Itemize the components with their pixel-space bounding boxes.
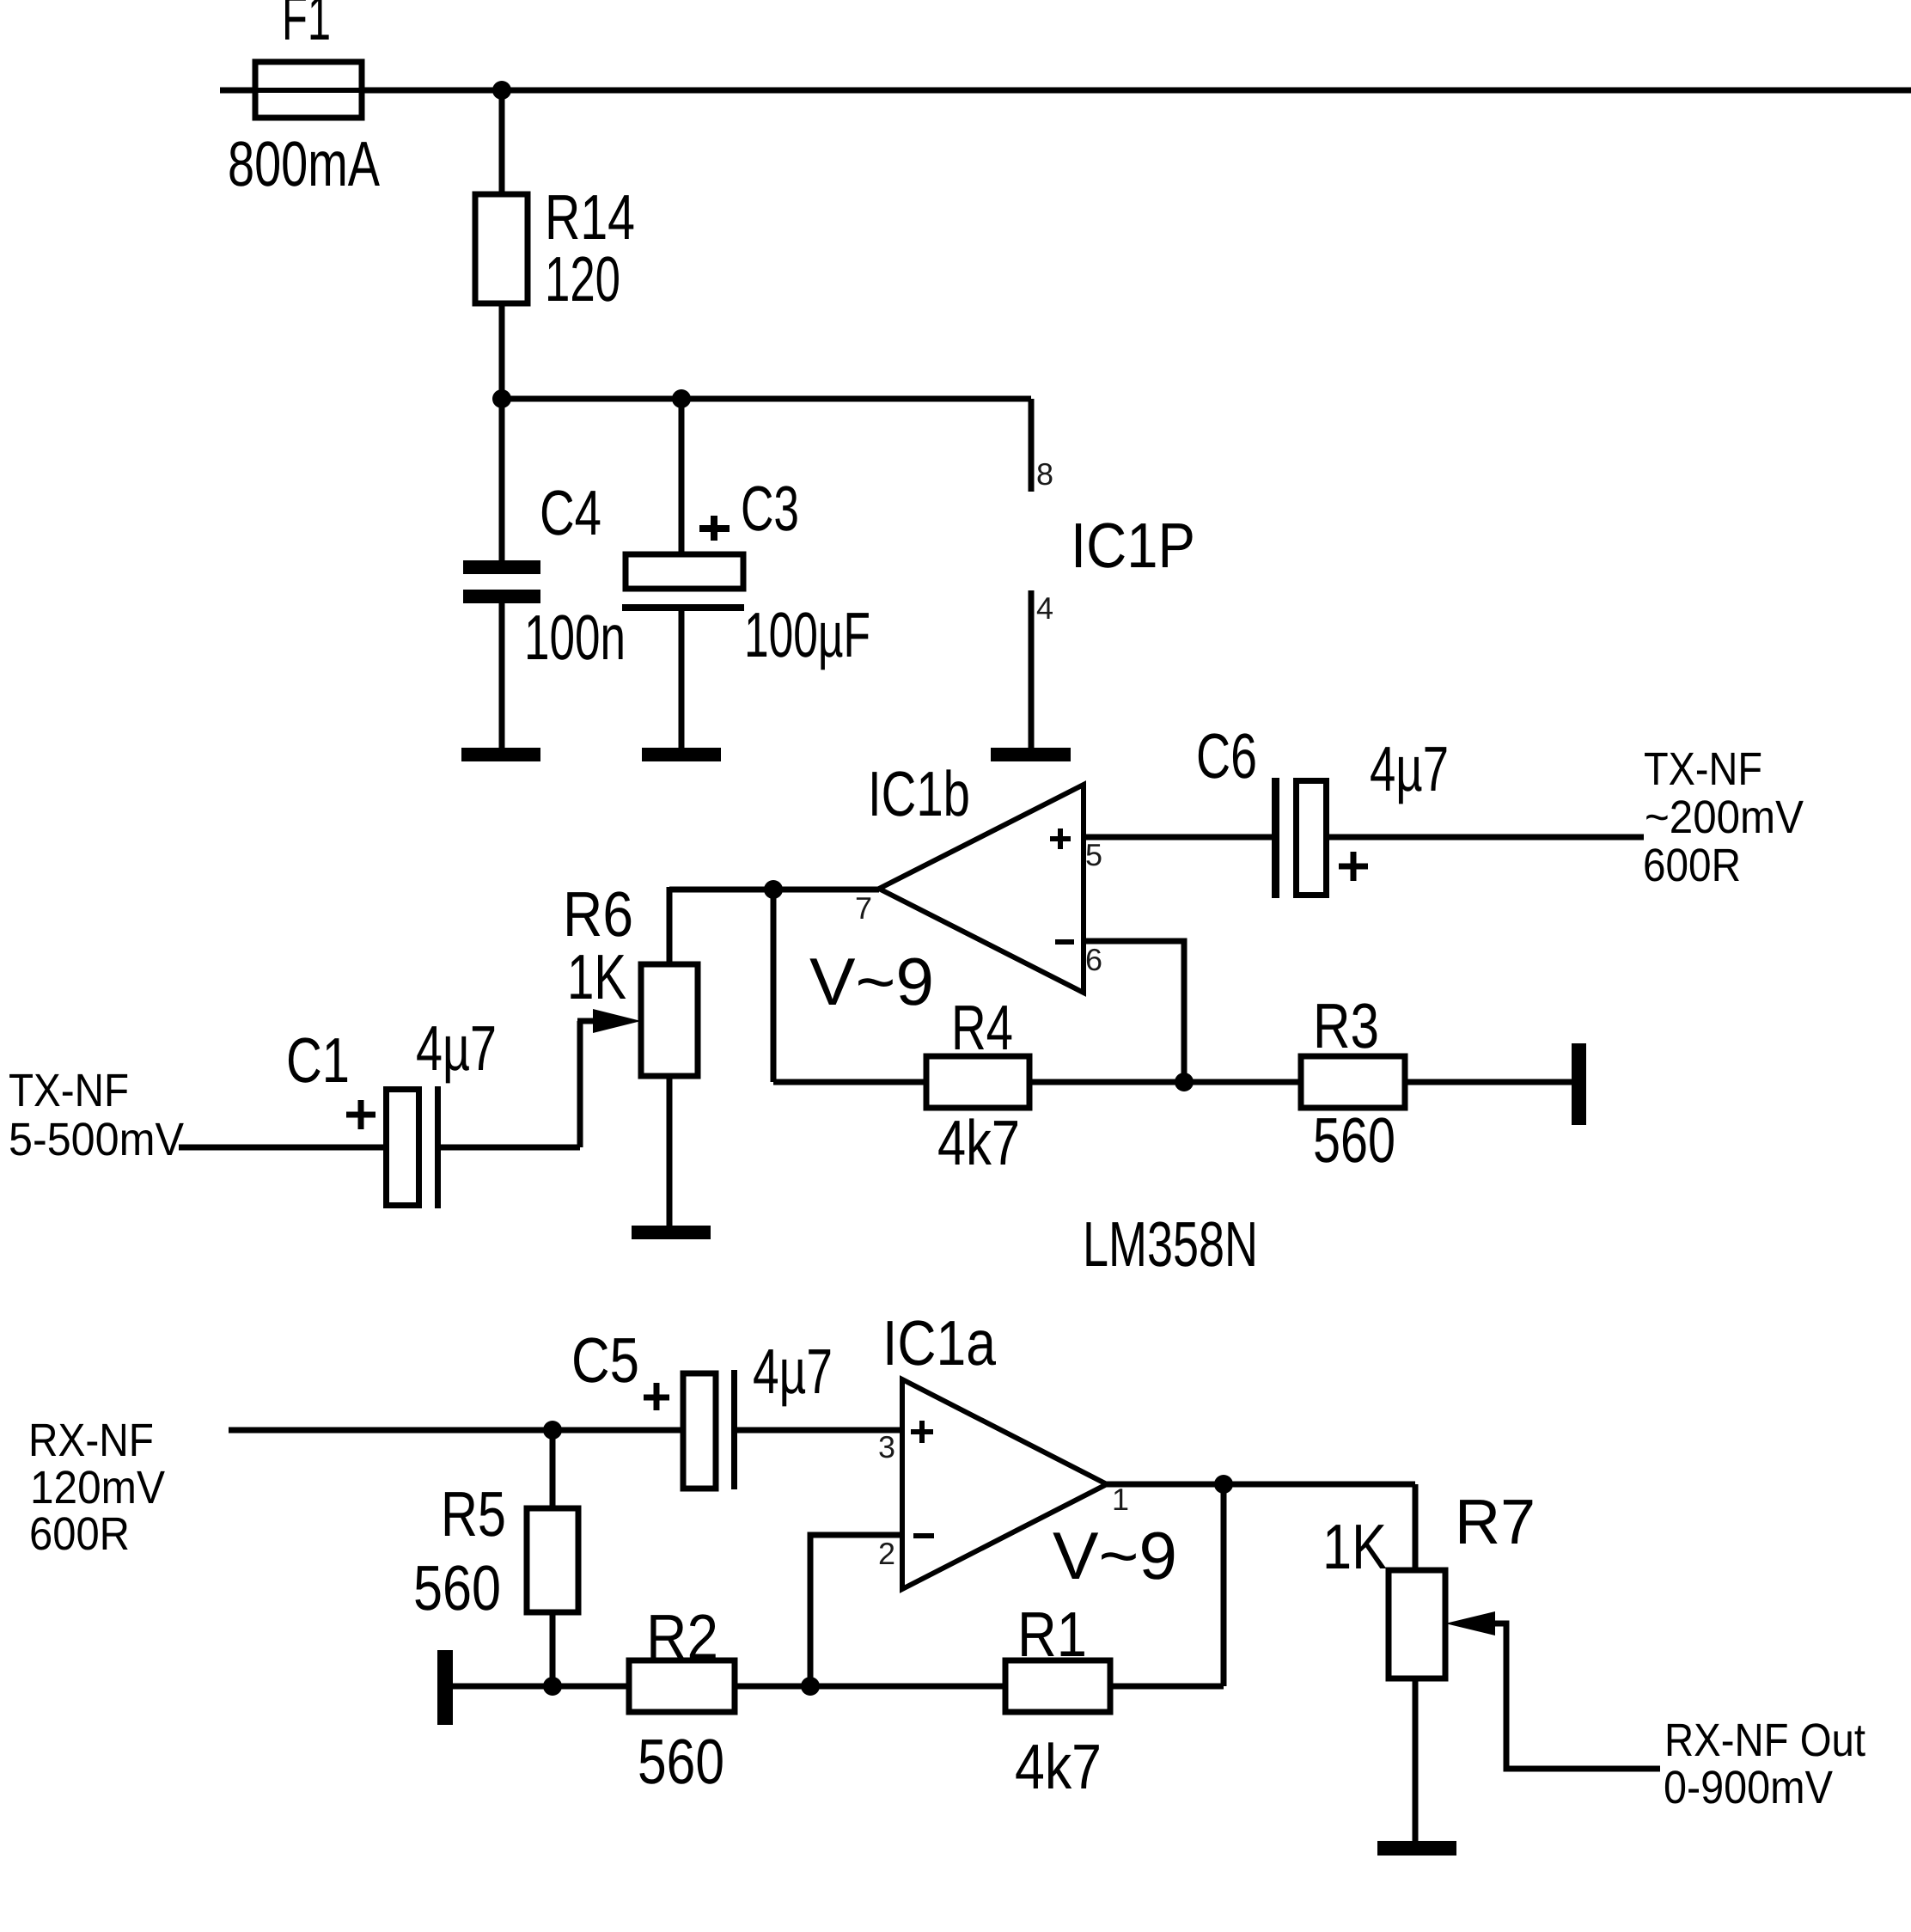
svg-text:IC1b: IC1b bbox=[868, 758, 970, 829]
svg-text:800mA: 800mA bbox=[228, 128, 380, 199]
svg-text:600R: 600R bbox=[1643, 840, 1741, 891]
svg-text:R1: R1 bbox=[1017, 1599, 1087, 1670]
node junction R2/R1/pin2 bbox=[801, 1677, 820, 1696]
svg-text:R7: R7 bbox=[1455, 1486, 1536, 1557]
wire R5 bottom lead bbox=[550, 1612, 556, 1686]
svg-text:LM358N: LM358N bbox=[1083, 1208, 1258, 1280]
resistor R2 bbox=[629, 1660, 735, 1712]
ground left bbox=[437, 1650, 453, 1725]
wire output drop to R1 bbox=[1221, 1484, 1227, 1686]
svg-text:560: 560 bbox=[413, 1552, 501, 1623]
wire IC1b pin 6 bbox=[1084, 941, 1184, 1082]
svg-text:5: 5 bbox=[1085, 837, 1102, 872]
svg-text:5-500mV: 5-500mV bbox=[9, 1114, 184, 1165]
svg-text:6: 6 bbox=[1085, 942, 1102, 977]
svg-text:C1: C1 bbox=[286, 1024, 350, 1096]
ground IC1P bbox=[991, 748, 1071, 761]
svg-text:V~9: V~9 bbox=[1053, 1518, 1177, 1593]
node junction top rail / R14 bbox=[492, 81, 511, 100]
svg-text:1K: 1K bbox=[567, 941, 626, 1012]
wire TX-NF input bbox=[179, 1145, 386, 1151]
wire feedback row bbox=[773, 1079, 1572, 1085]
svg-text:4µ7: 4µ7 bbox=[1370, 733, 1449, 804]
wire feedback drop bbox=[771, 890, 777, 1082]
resistor R4 bbox=[926, 1056, 1029, 1108]
wire R6 wiper bbox=[577, 1018, 595, 1024]
svg-text:R3: R3 bbox=[1313, 990, 1379, 1061]
op-amp IC1b bbox=[879, 785, 1084, 993]
wire IC1b pin 7 out bbox=[669, 887, 879, 893]
ground R7 bbox=[1377, 1841, 1456, 1856]
node junction C3 bbox=[672, 389, 691, 408]
svg-text:560: 560 bbox=[638, 1726, 724, 1797]
wire IC1P pin 8 stub bbox=[1029, 399, 1035, 492]
wire C4 bottom lead bbox=[499, 603, 505, 748]
svg-text:C3: C3 bbox=[741, 473, 799, 544]
svg-text:C6: C6 bbox=[1196, 720, 1257, 792]
svg-text:R2: R2 bbox=[646, 1601, 718, 1672]
wire R5 top lead bbox=[550, 1430, 556, 1508]
svg-text:4µ7: 4µ7 bbox=[416, 1012, 497, 1084]
wire IC1a output bbox=[1107, 1482, 1415, 1488]
capacitor C3 bbox=[626, 554, 743, 589]
svg-text:4k7: 4k7 bbox=[1015, 1731, 1102, 1802]
svg-text:IC1a: IC1a bbox=[882, 1307, 997, 1379]
svg-text:1: 1 bbox=[1112, 1482, 1129, 1517]
ground C3 bbox=[642, 748, 721, 761]
wire top rail bbox=[220, 88, 1911, 94]
svg-text:120: 120 bbox=[545, 243, 620, 315]
ground R6 bbox=[632, 1226, 711, 1239]
resistor R3 bbox=[1301, 1056, 1405, 1108]
node junction R14/C4 bbox=[492, 389, 511, 408]
svg-text:C5: C5 bbox=[571, 1324, 639, 1396]
svg-text:0-900mV: 0-900mV bbox=[1664, 1762, 1833, 1813]
wire R14 top bbox=[499, 90, 505, 194]
fuse F1 bbox=[255, 62, 362, 118]
svg-text:560: 560 bbox=[1313, 1104, 1395, 1176]
svg-text:100n: 100n bbox=[524, 602, 626, 673]
svg-text:120mV: 120mV bbox=[30, 1462, 165, 1513]
wire RX-NF input bbox=[229, 1428, 683, 1434]
ground R3 bbox=[1572, 1043, 1586, 1125]
node junction pin7/R6 bbox=[764, 880, 783, 899]
svg-text:4k7: 4k7 bbox=[937, 1107, 1020, 1178]
svg-text:R14: R14 bbox=[545, 181, 635, 253]
svg-text:1K: 1K bbox=[1322, 1511, 1387, 1582]
wire C5 to pin 3 bbox=[737, 1428, 902, 1434]
resistor R5 bbox=[527, 1508, 578, 1612]
wire R7 top lead bbox=[1413, 1484, 1419, 1570]
node junction R4/R3/pin6 bbox=[1175, 1073, 1194, 1091]
wire supply row bbox=[502, 396, 1031, 402]
wire IC1P pin 4 stub bbox=[1029, 590, 1035, 748]
svg-text:TX-NF: TX-NF bbox=[9, 1065, 129, 1116]
svg-text:R4: R4 bbox=[951, 992, 1013, 1063]
wire ground row bbox=[453, 1684, 1224, 1690]
svg-text:IC1P: IC1P bbox=[1071, 510, 1195, 581]
svg-text:TX-NF: TX-NF bbox=[1644, 743, 1762, 795]
svg-text:7: 7 bbox=[855, 890, 872, 926]
svg-text:C4: C4 bbox=[540, 477, 601, 548]
svg-text:RX-NF Out: RX-NF Out bbox=[1664, 1715, 1865, 1766]
wire C1 to R6 bbox=[441, 1145, 580, 1151]
svg-text:4µ7: 4µ7 bbox=[753, 1336, 833, 1407]
potentiometer R6 bbox=[641, 964, 698, 1076]
svg-text:R6: R6 bbox=[563, 878, 633, 950]
ground C4 bbox=[461, 748, 540, 761]
svg-text:F1: F1 bbox=[282, 0, 331, 53]
svg-text:8: 8 bbox=[1036, 456, 1053, 492]
svg-text:R5: R5 bbox=[441, 1478, 506, 1550]
wire IC1a pin 2 bbox=[810, 1535, 902, 1686]
node junction R5/gnd bbox=[543, 1677, 562, 1696]
capacitor C1 bbox=[387, 1090, 419, 1206]
wire R14 bottom bbox=[499, 303, 505, 399]
svg-text:3: 3 bbox=[878, 1429, 895, 1464]
svg-text:100µF: 100µF bbox=[744, 599, 870, 670]
wire IC1b pin 5 bbox=[1084, 835, 1272, 841]
wire C6 to TX-NF out bbox=[1329, 835, 1644, 841]
capacitor C5 bbox=[683, 1373, 716, 1489]
op-amp IC1a bbox=[902, 1379, 1107, 1589]
wire C4 top lead bbox=[499, 399, 505, 560]
capacitor C6 bbox=[1272, 778, 1279, 898]
capacitor C4 bbox=[463, 560, 540, 574]
svg-text:RX-NF: RX-NF bbox=[28, 1415, 154, 1466]
svg-text:4: 4 bbox=[1036, 590, 1053, 626]
svg-text:2: 2 bbox=[878, 1536, 895, 1571]
wire C3 bottom lead bbox=[679, 611, 685, 748]
svg-text:600R: 600R bbox=[29, 1508, 130, 1560]
node junction RX/R5 bbox=[543, 1421, 562, 1440]
svg-text:V~9: V~9 bbox=[809, 944, 934, 1019]
resistor R14 bbox=[475, 194, 528, 303]
potentiometer R7 bbox=[1389, 1570, 1445, 1678]
node junction output bbox=[1214, 1475, 1233, 1494]
svg-text:~200mV: ~200mV bbox=[1645, 792, 1804, 843]
wire R7 bottom lead bbox=[1413, 1678, 1419, 1841]
resistor R1 bbox=[1005, 1660, 1110, 1712]
wire C3 top lead bbox=[679, 399, 685, 552]
